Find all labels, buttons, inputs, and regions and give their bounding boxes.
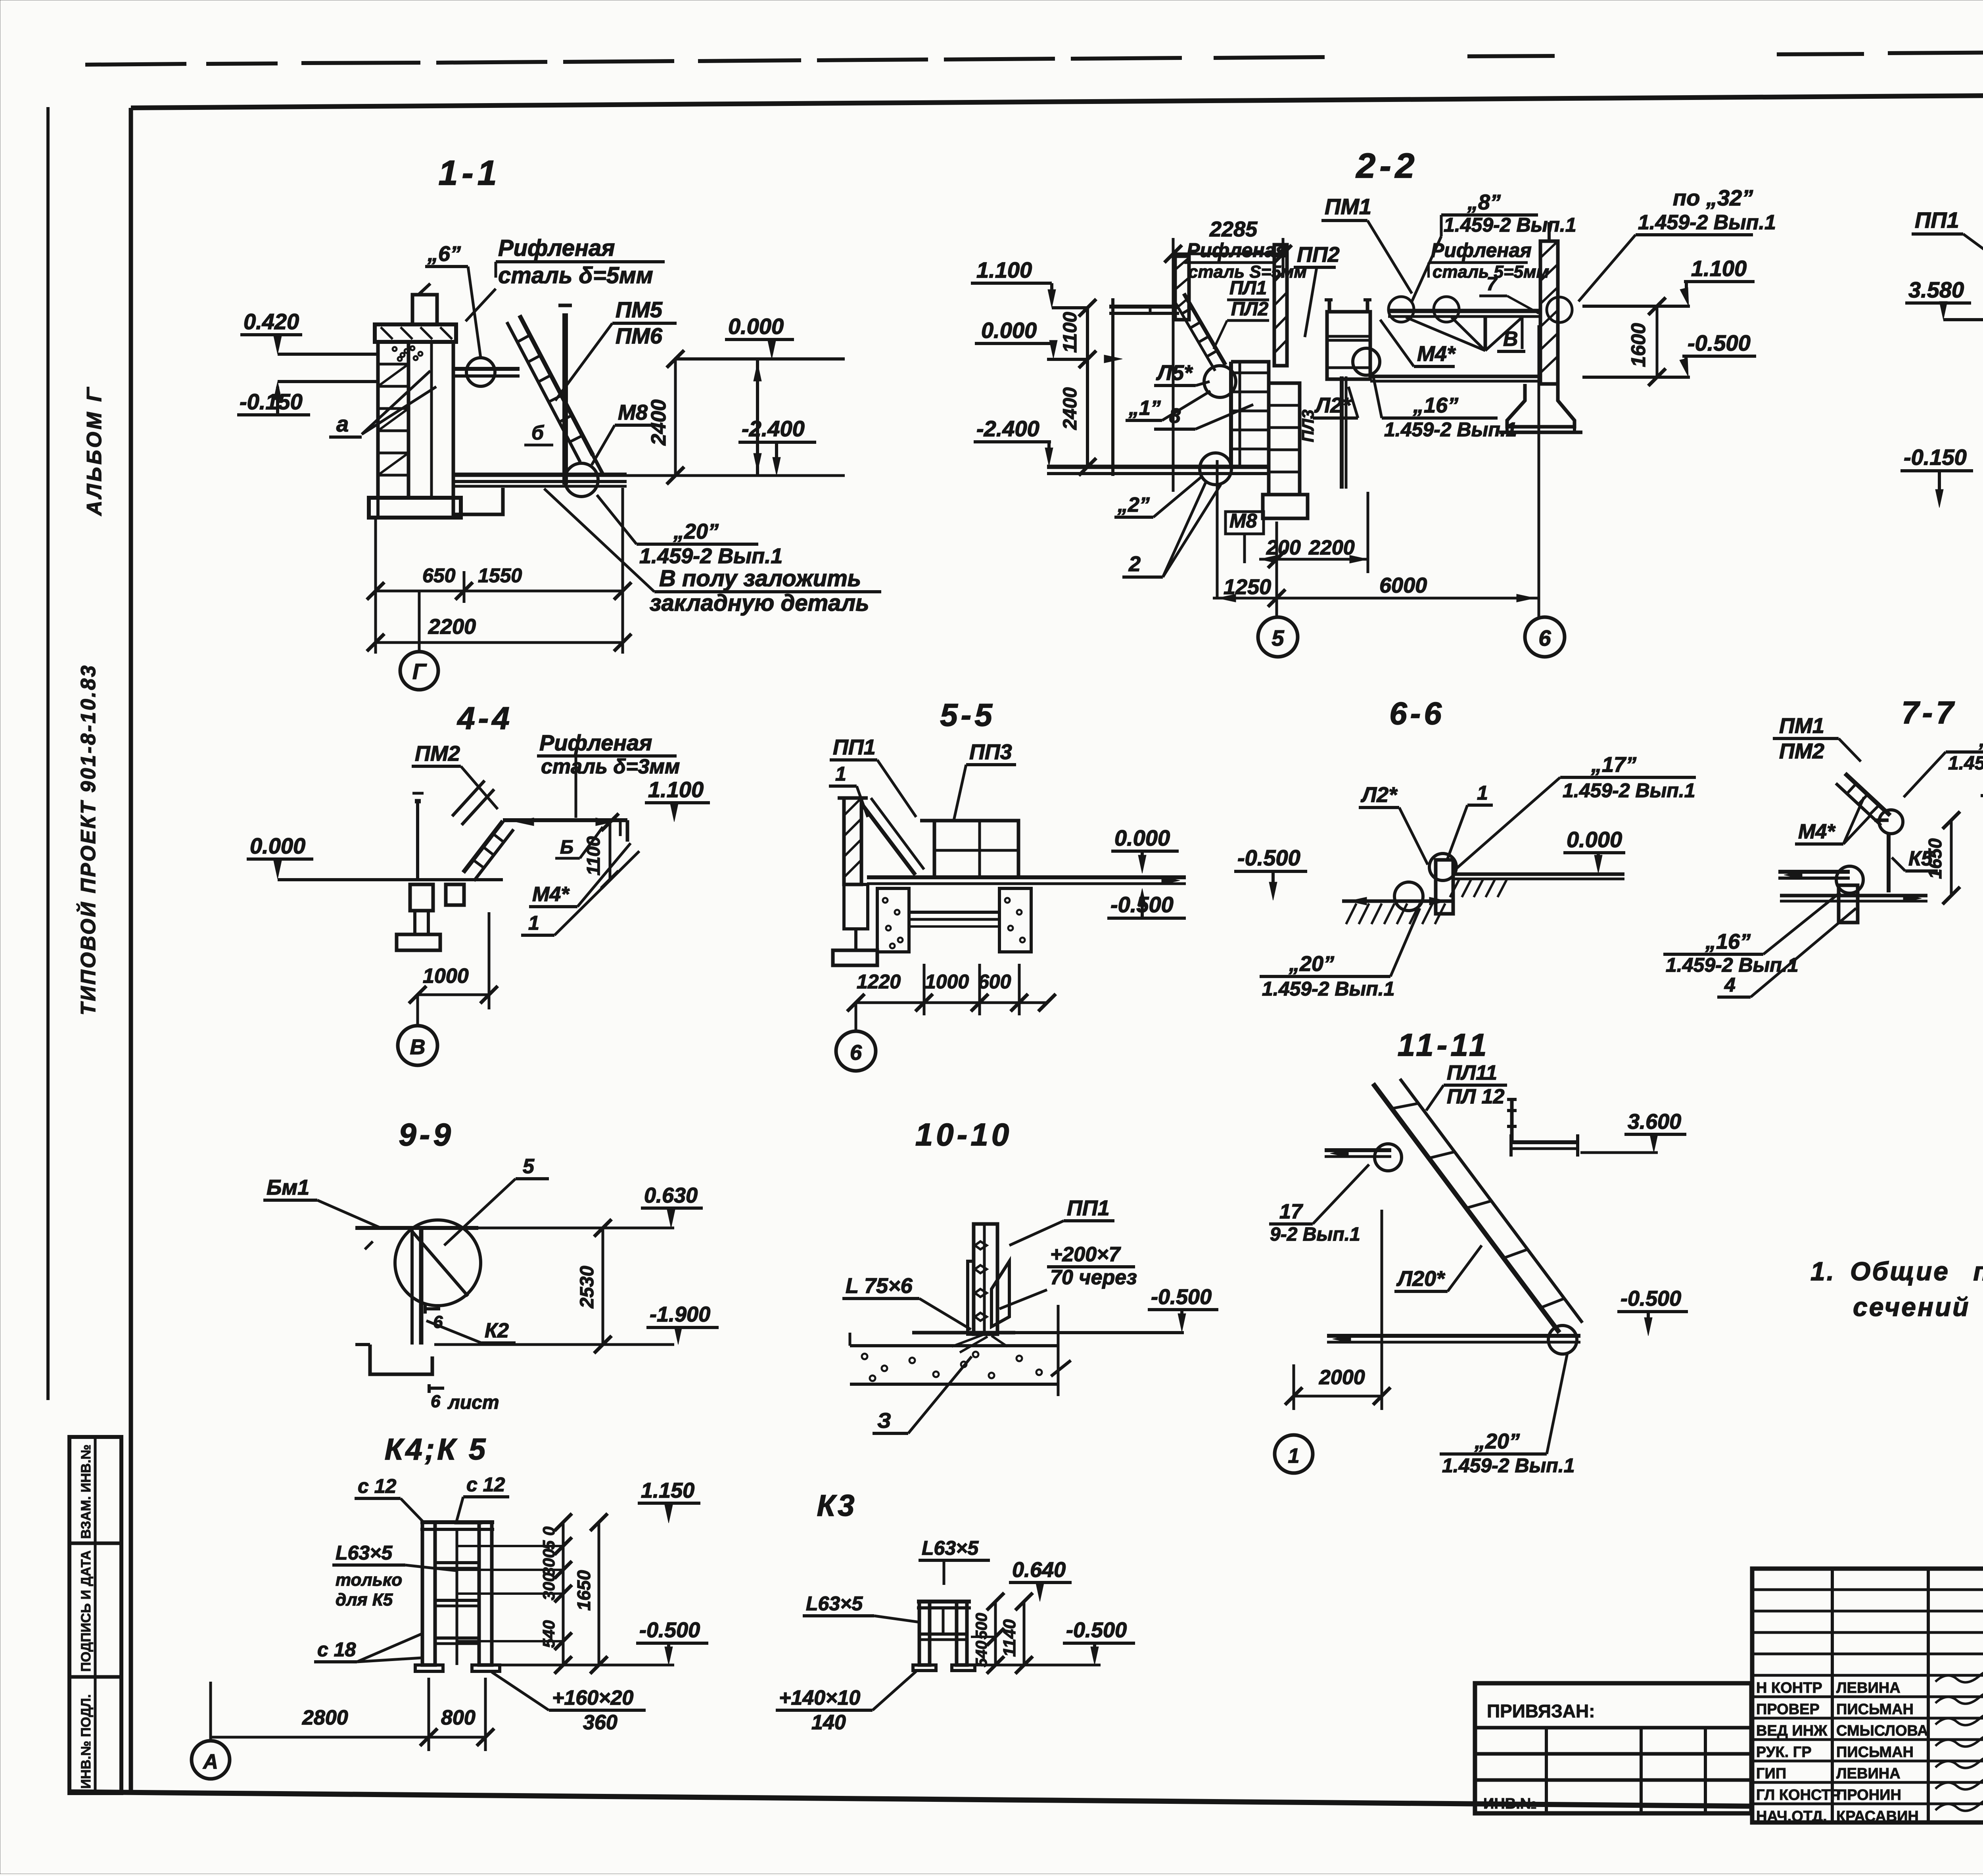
svg-text:1220: 1220 <box>857 971 901 993</box>
svg-text:1140: 1140 <box>1000 1619 1019 1657</box>
svg-text:360: 360 <box>583 1711 618 1734</box>
svg-text:1: 1 <box>835 763 846 785</box>
section 2-2 right wall footing bell <box>1507 384 1575 427</box>
section 1-1 grid circle Г <box>400 652 438 690</box>
svg-text:0.000: 0.000 <box>981 318 1037 343</box>
section 2-2 handrail row <box>1388 309 1540 313</box>
svg-text:ЛЕВИНА: ЛЕВИНА <box>1836 1765 1901 1782</box>
svg-text:а: а <box>336 411 349 436</box>
section 11-11 mini post <box>1510 1099 1514 1142</box>
svg-text:лист: лист <box>447 1392 499 1413</box>
svg-text:ПЛ11: ПЛ11 <box>1447 1061 1497 1084</box>
title block: privyazan table <box>1475 1683 1751 1813</box>
svg-text:-2.400: -2.400 <box>742 416 805 441</box>
svg-text:ЛЕВИНА: ЛЕВИНА <box>1836 1680 1901 1696</box>
svg-text:2200: 2200 <box>428 615 476 639</box>
svg-text:3.600: 3.600 <box>1628 1110 1681 1134</box>
svg-text:Рифленая: Рифленая <box>498 235 615 261</box>
svg-text:ВЕД ИНЖ: ВЕД ИНЖ <box>1756 1723 1828 1739</box>
svg-text:6: 6 <box>1538 625 1551 650</box>
section 1-1 bottom dims 650 1550 <box>374 520 377 654</box>
svg-text:сталь δ=3мм: сталь δ=3мм <box>541 755 680 778</box>
svg-text:1000: 1000 <box>925 971 969 993</box>
section 1-1 vertical dim 2400 <box>674 359 677 476</box>
svg-text:7-7: 7-7 <box>1901 695 1957 730</box>
section 2-2 column footing <box>1263 495 1308 518</box>
section K4K5 dim 1650 <box>598 1522 600 1665</box>
svg-text:L 75×6: L 75×6 <box>846 1274 913 1298</box>
svg-text:3.580: 3.580 <box>1908 277 1964 302</box>
section 2-2 central staircase steps <box>1231 362 1269 468</box>
svg-text:ПМ6: ПМ6 <box>616 323 663 348</box>
section 7-7 weld circle <box>1879 810 1903 834</box>
section 4-4 floor pieces <box>410 884 433 911</box>
svg-text:1000: 1000 <box>423 965 469 988</box>
svg-text:„16”: „16” <box>1705 930 1751 953</box>
section 2-2 lower floor <box>1047 465 1269 469</box>
svg-text:1.459-2 Вып.1: 1.459-2 Вып.1 <box>1948 753 1983 774</box>
svg-text:ТИПОВОЙ ПРОЕКТ 901-8-10.83: ТИПОВОЙ ПРОЕКТ 901-8-10.83 <box>76 664 100 1015</box>
svg-text:540: 540 <box>973 1641 990 1667</box>
section K4K5 dim col 540 300 300 <box>562 1522 565 1665</box>
section 11-11 grid circle 1 <box>1275 1435 1313 1473</box>
section 1-1 wall column with brick hatch <box>375 324 456 342</box>
svg-text:„8”: „8” <box>1979 728 1983 751</box>
section K3 dims 540 500 1140 <box>994 1602 997 1665</box>
section 7-7 post K5 <box>1887 834 1891 892</box>
svg-text:В: В <box>1503 328 1518 351</box>
section 2-2 weld circle at box <box>1353 348 1380 375</box>
section 5-5 diagonal brace <box>861 804 915 875</box>
svg-text:1.150: 1.150 <box>641 1479 694 1502</box>
svg-text:„20”: „20” <box>1289 952 1334 976</box>
sheet left outer margin line <box>46 107 50 1400</box>
svg-text:1600: 1600 <box>1627 323 1649 367</box>
svg-text:М4*: М4* <box>1417 342 1456 366</box>
section 1-1 ladder (stringer ПМ5/ПМ6) <box>520 315 593 455</box>
svg-text:АЛЬБОМ I: АЛЬБОМ I <box>83 393 106 516</box>
svg-text:„2”: „2” <box>1117 493 1150 516</box>
svg-text:650: 650 <box>422 564 456 587</box>
svg-text:К4;К 5: К4;К 5 <box>385 1433 488 1466</box>
svg-text:-1.900: -1.900 <box>650 1302 710 1326</box>
section 2-2 right wall hatched <box>1540 241 1558 384</box>
svg-text:200: 200 <box>1266 536 1301 559</box>
svg-text:Л2*: Л2* <box>1314 393 1352 417</box>
section 1-1 concrete patch <box>393 347 397 351</box>
svg-text:Б: Б <box>560 837 573 858</box>
svg-text:„17”: „17” <box>1591 753 1636 777</box>
svg-text:0.420: 0.420 <box>244 309 299 334</box>
section 10-10 floor slab <box>912 1331 1015 1335</box>
svg-text:-0.150: -0.150 <box>1904 445 1967 470</box>
section 6-6 post <box>1436 860 1453 914</box>
svg-text:0.000: 0.000 <box>728 314 784 339</box>
svg-text:2-2: 2-2 <box>1355 146 1418 185</box>
sheet top dashed border <box>85 64 186 65</box>
svg-text:1.459-2 Вып.1: 1.459-2 Вып.1 <box>1262 978 1395 1000</box>
svg-text:1.459-2 Вып.1: 1.459-2 Вып.1 <box>1563 779 1695 802</box>
svg-text:ПП1: ПП1 <box>833 735 876 759</box>
section 2-2 platform floor line <box>1370 375 1540 378</box>
svg-text:ПОДПИСЬ И ДАТА: ПОДПИСЬ И ДАТА <box>79 1550 94 1672</box>
svg-text:2400: 2400 <box>647 399 670 446</box>
section 1-1 stair stringer post <box>562 313 568 485</box>
svg-text:7: 7 <box>1486 274 1498 295</box>
section 2-2 vertical dim 1600 <box>1656 306 1659 377</box>
svg-text:Рифленая: Рифленая <box>1431 239 1532 261</box>
svg-text:ПМ1: ПМ1 <box>1779 714 1824 738</box>
section 2-2 upper weld circle L5 <box>1204 366 1236 397</box>
section 4-4 platform <box>503 818 627 822</box>
svg-text:4: 4 <box>1724 974 1736 996</box>
svg-text:Н КОНТР: Н КОНТР <box>1756 1680 1822 1696</box>
svg-text:ВЗАМ. ИНВ.№: ВЗАМ. ИНВ.№ <box>79 1444 94 1539</box>
section 2-2 left upper stair <box>1184 293 1225 365</box>
svg-text:500: 500 <box>973 1613 990 1640</box>
svg-text:17: 17 <box>1279 1200 1303 1223</box>
svg-text:ПИСЬМАН: ПИСЬМАН <box>1836 1744 1914 1761</box>
svg-text:2: 2 <box>1128 552 1141 576</box>
section 2-2 left platform <box>1109 305 1179 309</box>
svg-text:1: 1 <box>1477 782 1488 804</box>
svg-text:300: 300 <box>539 1549 558 1577</box>
svg-text:6: 6 <box>433 1312 443 1332</box>
svg-text:0.640: 0.640 <box>1012 1558 1066 1582</box>
title block: signature table <box>1752 1569 1983 1822</box>
svg-text:закладную деталь: закладную деталь <box>650 590 869 616</box>
svg-text:5-5: 5-5 <box>940 697 995 733</box>
svg-text:ИНВ.№: ИНВ.№ <box>1483 1795 1537 1812</box>
section 7-7 ladder <box>1845 773 1890 815</box>
section 10-10 vertical plate <box>974 1224 997 1334</box>
svg-text:К3: К3 <box>817 1489 857 1523</box>
section K3 frame <box>917 1600 971 1604</box>
svg-text:11-11: 11-11 <box>1398 1027 1490 1063</box>
svg-text:+160×20: +160×20 <box>552 1686 633 1709</box>
section 2-2 lower-left weld circle <box>1200 453 1231 485</box>
svg-text:ПМ5: ПМ5 <box>616 297 663 322</box>
svg-text:6000: 6000 <box>1379 574 1427 597</box>
svg-text:1: 1 <box>1288 1444 1300 1467</box>
section 1-1 weld circle at wall <box>466 358 495 386</box>
section 2-2 brick column <box>1269 383 1300 495</box>
section 7-7 column below <box>1839 885 1858 923</box>
section 5-5 foundation blocks <box>877 888 909 952</box>
svg-text:0.630: 0.630 <box>644 1184 698 1207</box>
section 7-7 left beam <box>1778 870 1850 874</box>
svg-text:L63×5: L63×5 <box>922 1537 979 1559</box>
svg-text:-0.500: -0.500 <box>1621 1287 1681 1310</box>
svg-text:140: 140 <box>811 1711 846 1734</box>
svg-text:З: З <box>877 1409 891 1433</box>
svg-text:540: 540 <box>539 1620 558 1648</box>
section 5-5 wall hatched <box>838 796 868 800</box>
svg-text:ПМ1: ПМ1 <box>1325 194 1371 219</box>
section 2-2 wall with hatch (PP2) <box>1274 245 1287 366</box>
svg-text:ПЛ2: ПЛ2 <box>1231 299 1269 320</box>
svg-text:800: 800 <box>441 1706 476 1729</box>
svg-text:только: только <box>336 1570 402 1590</box>
section K4K5 grid circle A <box>192 1741 230 1779</box>
svg-text:-0.500: -0.500 <box>639 1618 700 1642</box>
svg-text:по „32”: по „32” <box>1673 185 1753 210</box>
section 2-2 grid circle 6 <box>1525 617 1565 657</box>
section 1-1 weld circle at floor <box>565 463 598 497</box>
svg-text:5: 5 <box>523 1155 535 1178</box>
svg-text:ПП3: ПП3 <box>969 740 1012 764</box>
svg-text:ПП1: ПП1 <box>1915 207 1959 232</box>
sheet bottom border <box>69 1792 1752 1806</box>
svg-text:1100: 1100 <box>1060 312 1081 353</box>
section 2-2 room left wall <box>1111 298 1114 476</box>
svg-text:М8: М8 <box>618 401 648 424</box>
svg-text:„6”: „6” <box>427 242 461 266</box>
section 11-11 bottom floor <box>1327 1334 1580 1338</box>
svg-text:6: 6 <box>850 1041 862 1065</box>
svg-text:1650: 1650 <box>573 1570 594 1611</box>
section 9-9 footing <box>370 1345 432 1374</box>
svg-text:с 12: с 12 <box>466 1473 505 1496</box>
svg-text:1.459-2 Вып.1: 1.459-2 Вып.1 <box>1638 211 1776 234</box>
sheet inner frame left line <box>129 108 133 1793</box>
svg-text:1.100: 1.100 <box>1691 256 1747 281</box>
svg-text:2000: 2000 <box>1319 1366 1365 1389</box>
section 2-2 left vertical dims 1100 2400 <box>1086 308 1089 467</box>
svg-text:ПЛ3: ПЛ3 <box>1298 410 1317 442</box>
svg-text:„1”: „1” <box>1128 397 1161 420</box>
section 5-5 platform box <box>934 821 1018 877</box>
svg-text:ПРОВЕР: ПРОВЕР <box>1756 1701 1820 1718</box>
svg-text:КРАСАВИН: КРАСАВИН <box>1836 1808 1919 1825</box>
section 1-1 bottom dim 2200 <box>376 641 623 644</box>
svg-text:ПИСЬМАН: ПИСЬМАН <box>1836 1701 1914 1718</box>
section 10-10 weld fan <box>952 1335 984 1347</box>
svg-text:-0.500: -0.500 <box>1151 1285 1212 1309</box>
svg-text:-0.500: -0.500 <box>1066 1618 1127 1642</box>
section 4-4 grid circle В <box>398 1026 437 1065</box>
section K4K5 base plates <box>415 1665 443 1671</box>
svg-text:70 через: 70 через <box>1050 1266 1137 1289</box>
left bottom stamp table <box>69 1437 121 1793</box>
svg-text:1.100: 1.100 <box>976 257 1032 282</box>
svg-text:9-2 Вып.1: 9-2 Вып.1 <box>1270 1224 1360 1245</box>
svg-text:0.000: 0.000 <box>250 833 305 858</box>
section 9-9 label 6 list <box>429 1387 444 1390</box>
section 5-5 floor line <box>867 875 1186 879</box>
svg-text:„8”: „8” <box>1467 190 1501 214</box>
section 4-4 handrail post <box>416 801 419 880</box>
svg-text:Бм1: Бм1 <box>267 1176 309 1199</box>
svg-text:ПЛ 12: ПЛ 12 <box>1447 1085 1504 1108</box>
svg-text:1.100: 1.100 <box>648 777 704 802</box>
svg-text:ПМ2: ПМ2 <box>1779 739 1824 763</box>
svg-text:Рифленая: Рифленая <box>539 730 652 755</box>
section 2-2 grid circle 5 <box>1258 617 1298 657</box>
svg-text:600: 600 <box>978 971 1011 993</box>
svg-text:2800: 2800 <box>302 1706 348 1729</box>
svg-text:М4*: М4* <box>1798 820 1836 843</box>
svg-text:2400: 2400 <box>1060 387 1081 430</box>
section 9-9 weld tick <box>425 1307 440 1310</box>
svg-text:1650: 1650 <box>1925 838 1945 879</box>
section 4-4 vertical dim 1100 <box>609 822 612 880</box>
svg-text:1-1: 1-1 <box>438 153 501 192</box>
svg-text:0.000: 0.000 <box>1114 825 1170 850</box>
svg-text:-0.500: -0.500 <box>1688 330 1751 355</box>
svg-text:9-9: 9-9 <box>399 1117 454 1152</box>
svg-text:1.459-2 Вып.1: 1.459-2 Вып.1 <box>1444 214 1576 236</box>
svg-text:+200×7: +200×7 <box>1050 1243 1121 1266</box>
svg-text:2200: 2200 <box>1308 536 1355 559</box>
svg-text:с 18: с 18 <box>317 1638 356 1661</box>
section 10-10 break line <box>1057 1305 1060 1396</box>
svg-text:Л5*: Л5* <box>1156 361 1193 385</box>
section 4-4 footing <box>397 934 440 950</box>
svg-text:1. Общие примечания и марки: 1. Общие примечания и маркировка <box>1810 1256 1983 1286</box>
section 1-1 wall footing <box>369 498 461 518</box>
section 9-9 vertical dim 2530 <box>602 1228 604 1345</box>
title block: signatures squiggles <box>1935 1671 1983 1682</box>
svg-text:ПЛ1: ПЛ1 <box>1229 278 1267 299</box>
svg-text:ГЛ КОНСТР: ГЛ КОНСТР <box>1756 1787 1841 1803</box>
section K3 base plates <box>913 1665 936 1671</box>
section 2-2 upper platform box <box>1327 312 1370 379</box>
section 5-5 grid circle 6 <box>836 1031 876 1071</box>
svg-text:СМЫСЛОВА: СМЫСЛОВА <box>1836 1723 1928 1739</box>
svg-text:Л20*: Л20* <box>1396 1267 1446 1291</box>
svg-text:ИНВ.№ ПОДЛ.: ИНВ.№ ПОДЛ. <box>79 1694 94 1789</box>
section 5-5 left column and footing <box>844 884 868 929</box>
svg-text:„16”: „16” <box>1413 393 1458 417</box>
svg-text:-0.500: -0.500 <box>1237 845 1300 870</box>
section 7-7 weld circle low <box>1836 866 1863 893</box>
svg-text:ПП2: ПП2 <box>1297 243 1340 267</box>
section 11-11 stair stringer <box>1373 1084 1559 1333</box>
svg-text:„20”: „20” <box>1474 1429 1520 1453</box>
section 7-7 vertical dim 1650 <box>1950 820 1953 896</box>
svg-text:ПРИВЯЗАН:: ПРИВЯЗАН: <box>1487 1701 1595 1721</box>
svg-text:НАЧ.ОТД.: НАЧ.ОТД. <box>1756 1808 1827 1825</box>
section K4K5 frame <box>420 1520 494 1524</box>
svg-text:1.459-2 Вып.1: 1.459-2 Вып.1 <box>1442 1454 1575 1477</box>
svg-text:Г: Г <box>412 659 427 684</box>
svg-text:Л2*: Л2* <box>1360 783 1398 807</box>
section 11-11 upper beam <box>1325 1148 1391 1152</box>
svg-text:1: 1 <box>528 912 539 934</box>
svg-text:сталь δ=5мм: сталь δ=5мм <box>498 263 653 288</box>
svg-text:6-6: 6-6 <box>1389 696 1445 731</box>
svg-text:РУК. ГР: РУК. ГР <box>1756 1744 1812 1761</box>
section 11-11 small platform right <box>1511 1140 1578 1144</box>
svg-text:К2: К2 <box>485 1319 509 1342</box>
svg-text:L63×5: L63×5 <box>806 1592 863 1615</box>
svg-text:ПРОНИН: ПРОНИН <box>1836 1787 1901 1803</box>
section 2-2 rail fan braces <box>1484 317 1487 351</box>
svg-text:2530: 2530 <box>577 1266 598 1308</box>
svg-text:для К5: для К5 <box>336 1590 393 1609</box>
svg-text:В: В <box>410 1035 426 1059</box>
section 6-6 lower ground <box>1342 900 1454 903</box>
svg-text:-2.400: -2.400 <box>976 416 1039 441</box>
svg-text:5: 5 <box>1271 625 1284 650</box>
svg-text:„20”: „20” <box>673 520 719 543</box>
section 7-7 floor <box>1780 894 1927 898</box>
svg-text:с 12: с 12 <box>358 1475 397 1497</box>
section 4-4 ladder march <box>463 821 503 873</box>
svg-text:-0.150: -0.150 <box>240 389 303 414</box>
svg-text:ПП1: ПП1 <box>1067 1196 1110 1220</box>
section 11-11 stair treads <box>1392 1103 1418 1109</box>
sheet inner frame top line <box>131 92 1983 108</box>
section 1-1 floor slab <box>453 473 627 477</box>
svg-text:0.000: 0.000 <box>1567 827 1622 852</box>
svg-text:6: 6 <box>431 1392 441 1411</box>
section 9-9 vertical member <box>410 1228 414 1345</box>
svg-text:М4*: М4* <box>532 883 570 906</box>
svg-text:ПМ2: ПМ2 <box>415 742 460 765</box>
svg-text:В полу заложить: В полу заложить <box>659 566 861 591</box>
section 9-9 big circle <box>395 1220 481 1306</box>
svg-text:А: А <box>202 1750 218 1773</box>
svg-text:Рифленая: Рифленая <box>1187 239 1287 261</box>
svg-text:1550: 1550 <box>478 564 522 587</box>
section 9-9 top beam line <box>355 1226 478 1230</box>
svg-text:10-10: 10-10 <box>915 1117 1013 1152</box>
svg-text:1.459-2 Вып.1: 1.459-2 Вып.1 <box>639 544 782 568</box>
svg-text:б: б <box>531 422 545 444</box>
svg-text:ГИП: ГИП <box>1756 1765 1786 1782</box>
svg-text:1.459-2 Вып.1: 1.459-2 Вып.1 <box>1384 418 1517 441</box>
svg-text:4-4: 4-4 <box>456 700 513 736</box>
svg-text:сечений дана на листе 8.: сечений дана на листе 8. <box>1853 1292 1983 1322</box>
svg-text:2285: 2285 <box>1209 217 1258 241</box>
svg-text:L63×5: L63×5 <box>336 1542 393 1564</box>
section 10-10 plate welds <box>975 1241 987 1249</box>
svg-text:8: 8 <box>1169 405 1181 428</box>
section 2-2 vertical stringer <box>1340 376 1344 489</box>
svg-text:+140×10: +140×10 <box>779 1686 860 1709</box>
section 6-6 upper ground <box>1452 873 1624 876</box>
